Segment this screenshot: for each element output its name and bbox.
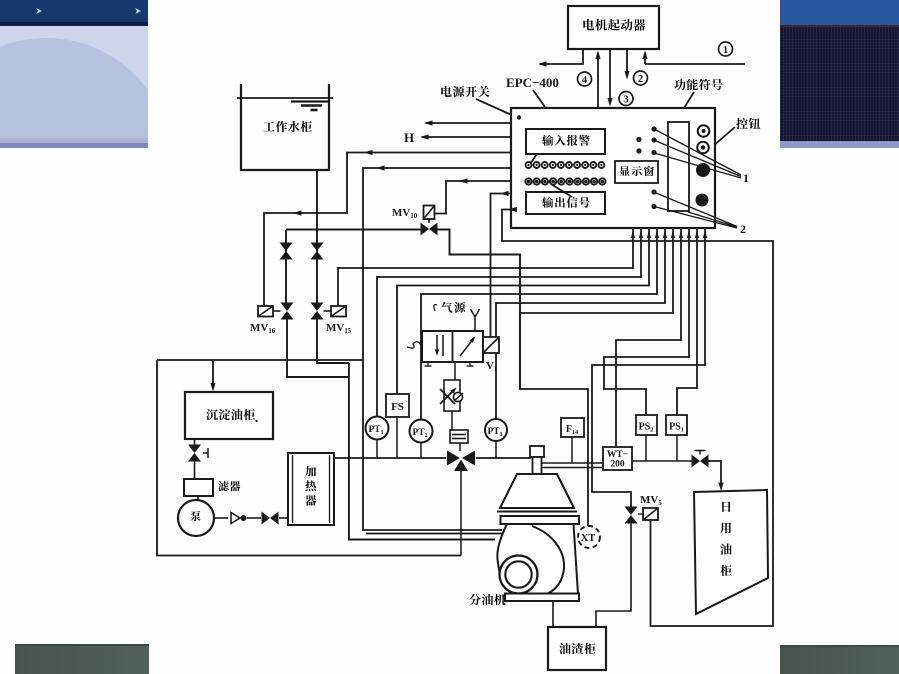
wire starter to panel down (3)	[607, 49, 612, 107]
svg-text:H: H	[404, 130, 414, 145]
pipe into day tank	[708, 461, 724, 491]
svg-text:MV10: MV10	[392, 207, 418, 220]
wire to XT sensor	[520, 228, 675, 526]
pressure transmitter PT2	[410, 420, 433, 459]
slide corner decoration: top-right blue bar	[780, 0, 899, 25]
wire starter right with arrow up (1)	[642, 51, 745, 65]
slide corner decoration: top-left navy bar	[0, 0, 148, 22]
svg-text:1: 1	[723, 45, 728, 56]
label circled 2	[634, 71, 648, 85]
check valve after pump	[214, 513, 247, 524]
svg-text:EPC−400: EPC−400	[506, 75, 559, 90]
pressure transmitter PT3	[485, 419, 507, 458]
solenoid valve MV10 actuator	[424, 206, 435, 220]
indicator dots lower	[651, 189, 656, 209]
water pipe MV16 down	[287, 320, 495, 540]
air supply arrow	[471, 309, 480, 331]
svg-text:MV16: MV16	[250, 322, 276, 335]
svg-text:2: 2	[740, 222, 746, 236]
label circled 3	[619, 92, 633, 106]
slide corner decoration: top-right dark panel	[780, 25, 899, 145]
pressure transmitter PT1	[366, 417, 389, 459]
wire panel left out 1	[424, 120, 511, 125]
svg-text:FS: FS	[391, 401, 404, 413]
label MV15	[326, 322, 352, 335]
pump 泵	[178, 496, 214, 536]
wire to PT1	[377, 228, 643, 416]
connection F14	[561, 418, 584, 463]
separator collar	[501, 516, 580, 524]
valve MV10	[421, 219, 438, 236]
orifice fitting	[450, 430, 468, 443]
button knob C	[696, 163, 710, 177]
wire to FS	[397, 228, 651, 394]
label V1	[486, 360, 498, 373]
oil pipe heater to three-way valve	[334, 457, 446, 459]
svg-text:XT: XT	[581, 533, 596, 544]
separator inlet shaft	[530, 446, 544, 474]
pipe MV5 down to sludge tank	[596, 523, 631, 627]
pipe MV10	[286, 230, 520, 390]
label 电源开关 power switch	[441, 86, 514, 116]
wire starter short down (2)	[624, 49, 629, 80]
label MV16	[250, 322, 276, 335]
wire branch to settling tank	[210, 360, 215, 392]
air source label 气源	[434, 302, 465, 313]
leader input alarm to LED	[530, 154, 537, 164]
water pipe from tank	[286, 170, 317, 303]
settling oil tank 沉淀油柜	[185, 392, 273, 439]
wire starter feedback up (4)	[595, 51, 600, 109]
svg-text:2: 2	[638, 74, 643, 85]
sludge tank 油渣柜	[548, 627, 606, 670]
svg-text:WT−: WT−	[607, 450, 628, 460]
wire D panel to V1 solenoid	[491, 191, 512, 336]
wire to WT-200	[616, 228, 683, 447]
svg-text:1: 1	[743, 171, 749, 185]
input alarm box 输入报警	[526, 129, 605, 154]
svg-text:200: 200	[610, 460, 625, 470]
decorative arrow glyphs in navy bar	[0, 0, 148, 22]
wire C panel to MV10	[435, 178, 511, 213]
directional valve V1	[407, 331, 483, 366]
wire to PS1	[677, 228, 699, 415]
separator body	[497, 524, 578, 594]
slide corner decoration: top-left moon image	[0, 26, 148, 143]
leader output signal to LED	[551, 184, 572, 197]
label circled 4	[578, 72, 592, 86]
outlet pipe to WT-200	[542, 463, 604, 468]
label 分油机	[469, 594, 505, 605]
LED row 1 (alarm lamps)	[526, 162, 605, 168]
label MV5	[640, 494, 662, 507]
separator base	[505, 594, 579, 602]
manual valve left top	[280, 243, 293, 260]
three-way drain	[460, 471, 462, 556]
wire to PT3	[496, 228, 667, 419]
pipe WT-200 to valve	[632, 460, 692, 462]
working water tank 工作水柜	[237, 84, 333, 170]
LED row 2 (signal lamps)	[525, 178, 605, 184]
label circled 1	[719, 42, 733, 56]
pressure switch PS2	[636, 415, 657, 461]
display window box 显示窗	[615, 161, 658, 183]
wire to PS2	[604, 228, 691, 415]
label MV10	[392, 207, 418, 220]
label 控钮 buttons	[712, 118, 760, 147]
EPC-400 control panel U1	[511, 108, 715, 228]
button knob D	[696, 194, 709, 207]
V1 solenoid	[483, 337, 499, 353]
panel corner screw	[517, 115, 521, 119]
controller WT-200	[603, 447, 632, 470]
slide corner decoration: bottom-right green block	[780, 645, 899, 674]
separator wheel	[500, 556, 538, 594]
heater 加热器	[288, 453, 334, 525]
temperature sensor XT	[578, 526, 600, 548]
wire A panel to MV16 solenoid	[264, 150, 511, 305]
valve to day tank	[692, 451, 709, 468]
svg-text:MV15: MV15	[326, 322, 352, 335]
solenoid valve MV15	[311, 303, 347, 320]
leader lines to 2	[656, 193, 746, 236]
pneumatic line V1 down	[452, 362, 460, 451]
oil pipe to separator	[476, 457, 531, 459]
svg-text:4: 4	[582, 75, 588, 86]
wire to MV15 solenoid	[338, 228, 635, 305]
label 滤器	[218, 481, 240, 491]
label EPC-400	[506, 75, 559, 107]
day oil tank 日用油柜	[694, 490, 768, 614]
solenoid valve MV16	[258, 303, 294, 320]
function symbol column	[668, 122, 689, 211]
manual valve right top	[311, 243, 324, 260]
pressure switch PS1	[666, 415, 687, 461]
wire left loop to three-way valve drain	[157, 360, 461, 556]
valve before heater	[247, 512, 288, 525]
flow control valve	[440, 380, 463, 411]
svg-text:MV5: MV5	[640, 494, 662, 507]
button knob A	[698, 125, 710, 137]
leader lines to 1	[656, 130, 749, 185]
wire B panel to separator inlet pipe	[363, 165, 511, 533]
valve below settling tank	[188, 439, 208, 479]
wire to PT2	[421, 228, 659, 419]
three-way valve	[447, 451, 475, 472]
water pipe MV15 down	[317, 320, 349, 364]
filter 滤器	[184, 479, 213, 496]
svg-text:3: 3	[623, 94, 628, 105]
valve MV5	[625, 507, 638, 524]
wire to MV5 valve	[592, 228, 707, 507]
wire panel left out H	[404, 130, 511, 145]
wire E panel loop to MV5 solenoid	[502, 207, 773, 626]
motor starter box 电机起动器	[568, 6, 659, 49]
indicator dots upper	[636, 126, 656, 155]
button knob B	[697, 142, 709, 154]
separator bowl	[497, 474, 577, 512]
label 功能符号 function symbols	[674, 79, 722, 121]
flow switch FS	[386, 394, 409, 458]
output signal box 输出信号	[526, 192, 605, 214]
sludge drain	[552, 601, 554, 627]
slide corner decoration: bottom-left green block	[15, 644, 149, 674]
MV5 solenoid	[638, 508, 658, 520]
wire starter left branch with arrow	[538, 49, 583, 67]
